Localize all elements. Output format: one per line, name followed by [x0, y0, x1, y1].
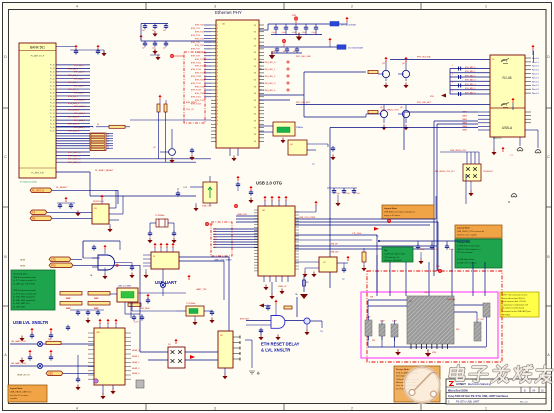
svg-text:P: P [217, 97, 218, 99]
svg-text:P: P [217, 80, 218, 82]
svg-text:RX: RX [32, 217, 36, 220]
svg-text:P: P [217, 49, 218, 51]
svg-text:Wire 2:2: Wire 2:2 [532, 66, 539, 68]
svg-text:3: 3 [214, 407, 216, 411]
svg-text:UB_UART_TX0: UB_UART_TX0 [11, 340, 26, 343]
svg-text:ETH_A8_P: ETH_A8_P [74, 91, 85, 94]
svg-text:P: P [217, 86, 218, 88]
svg-text:CTS: CTS [51, 258, 56, 261]
svg-text:HV-T device and the board: HV-T device and the board [502, 307, 524, 310]
svg-text:PL_52: PL_52 [50, 79, 55, 81]
svg-text:CTL_100k: CTL_100k [352, 233, 361, 235]
svg-text:ETH_A13_P: ETH_A13_P [68, 109, 80, 112]
svg-text:capable.: capable. [10, 398, 18, 400]
svg-text:ETH_LED_0: ETH_LED_0 [263, 62, 276, 64]
svg-text:device will not drive 30-D-Ts: device will not drive 30-D-Ts [502, 297, 526, 300]
svg-text:P: P [217, 73, 218, 75]
svg-text:USB_VBUS: USB_VBUS [140, 308, 150, 310]
svg-text:USB_VBUS_UART net: USB_VBUS_UART net [10, 390, 32, 393]
svg-text:Wire 0:0: Wire 0:0 [532, 58, 539, 60]
svg-text:HDMI_0: HDMI_0 [132, 350, 140, 352]
svg-text:1uF: 1uF [142, 30, 145, 32]
svg-text:SN74LVC1G: SN74LVC1G [93, 201, 104, 203]
svg-text:AVNET: AVNET [456, 382, 466, 386]
svg-text:ETH_MDI_0: ETH_MDI_0 [465, 67, 475, 69]
svg-text:P: P [217, 59, 218, 61]
svg-text:1uF: 1uF [293, 51, 296, 53]
svg-text:Wire 0:1: Wire 0:1 [532, 74, 539, 76]
svg-text:ETH_LED_2: ETH_LED_2 [263, 76, 276, 78]
svg-text:2m Ohm@100M: 2m Ohm@100M [341, 25, 356, 27]
svg-text:P: P [217, 25, 218, 27]
svg-text:PHY_LED_ACT: PHY_LED_ACT [296, 101, 311, 104]
svg-text:0.1uF: 0.1uF [312, 32, 316, 34]
svg-text:Default = Not Stuff.: Default = Not Stuff. [384, 259, 402, 262]
svg-text:P: P [217, 100, 218, 102]
svg-text:USB_DM: USB_DM [330, 251, 339, 253]
svg-text:VSS: VSS [432, 352, 437, 354]
svg-text:P: P [217, 90, 218, 92]
svg-text:ETH_A11_P: ETH_A11_P [68, 102, 80, 105]
svg-text:2= DAT, 0=1, RST, RdS: 2= DAT, 0=1, RST, RdS [13, 282, 35, 285]
svg-text:ETH_TX4: ETH_TX4 [195, 38, 205, 40]
svg-text:P: P [217, 45, 218, 47]
svg-text:Wire 2:0: Wire 2:0 [532, 81, 539, 83]
svg-text:ETH_A0_P: ETH_A0_P [74, 64, 85, 67]
svg-text:PL_56: PL_56 [50, 92, 55, 94]
svg-text:Design Note:: Design Note: [396, 368, 410, 371]
svg-text:P: P [217, 104, 218, 106]
svg-text:NOTE: The connections at this: NOTE: The connections at this [502, 294, 528, 297]
svg-text:3: 3 [214, 5, 216, 9]
svg-text:BANK 501: BANK 501 [30, 46, 45, 50]
svg-text:ETH_A16_P: ETH_A16_P [74, 119, 86, 122]
svg-text:4: 4 [76, 5, 78, 9]
svg-text:1uF: 1uF [152, 48, 155, 50]
svg-text:is operating in combination wi: is operating in combination with [502, 303, 528, 306]
svg-text:R81: R81 [372, 340, 375, 342]
svg-text:ETH_A12_P: ETH_A12_P [74, 105, 86, 108]
svg-text:ETH_TX11: ETH_TX11 [191, 62, 202, 64]
svg-text:OTG block to +5.: OTG block to +5. [384, 256, 400, 259]
svg-text:2: 2 [351, 5, 353, 9]
svg-text:P: P [217, 110, 218, 112]
svg-text:PL_54: PL_54 [50, 85, 55, 87]
svg-text:ETH_A5_P: ETH_A5_P [68, 81, 79, 84]
svg-text:3= DAT, RdS equalized: 3= DAT, RdS equalized [13, 296, 35, 299]
svg-text:Wire 1:2: Wire 1:2 [532, 77, 539, 79]
svg-text:USB0_ID: USB0_ID [278, 286, 287, 288]
svg-text:USB Self powered mode: USB Self powered mode [13, 289, 37, 292]
svg-text:MicroZed SOM: MicroZed SOM [448, 388, 468, 392]
svg-text:ETH_MDC_1: ETH_MDC_1 [68, 155, 81, 157]
svg-text:PHY_LED_ACT: PHY_LED_ACT [417, 101, 432, 104]
svg-text:D7: D7 [214, 247, 216, 249]
svg-text:Operating Note:: Operating Note: [13, 273, 28, 276]
svg-text:PL_57: PL_57 [50, 96, 55, 98]
svg-text:P: P [217, 114, 218, 116]
svg-text:Wire 3:1: Wire 3:1 [532, 85, 539, 87]
svg-text:P: P [217, 28, 218, 30]
svg-text:ETH_A4_P: ETH_A4_P [74, 78, 85, 81]
svg-text:in USB OTG mode all: in USB OTG mode all [457, 262, 477, 264]
svg-text:ETH_A9_P: ETH_A9_P [68, 95, 79, 98]
svg-text:ETH_MDC_2: ETH_MDC_2 [68, 159, 81, 161]
svg-text:RTS: RTS [51, 264, 56, 267]
svg-text:USB5: USB5 [462, 130, 467, 132]
svg-text:PTC one terminal: PTC one terminal [457, 251, 473, 254]
svg-text:ETH_A1_P: ETH_A1_P [68, 67, 79, 70]
svg-text:ETH_TX19: ETH_TX19 [191, 90, 202, 92]
svg-text:USB2: USB2 [462, 119, 467, 121]
svg-text:DNI: DNI [48, 339, 52, 341]
svg-text:1uF: 1uF [273, 51, 276, 53]
svg-text:USB LVL XNSLTR: USB LVL XNSLTR [13, 320, 48, 325]
svg-text:R68: R68 [456, 329, 459, 331]
svg-text:HDMI_3: HDMI_3 [132, 368, 140, 370]
svg-text:PL_53: PL_53 [50, 82, 55, 84]
svg-text:PHY_LED_LINK: PHY_LED_LINK [296, 56, 311, 58]
svg-text:USB UART: USB UART [155, 280, 177, 285]
svg-text:1.8V: 1.8V [183, 187, 188, 189]
svg-text:USB 2.0 OTG: USB 2.0 OTG [256, 181, 282, 186]
svg-text:P: P [217, 42, 218, 44]
svg-text:Y3 12MHz: Y3 12MHz [186, 303, 195, 305]
svg-text:5= RST, DAT, 0=1: 5= RST, DAT, 0=1 [13, 302, 30, 305]
svg-text:USB_VBUS_OTG: USB_VBUS_OTG [381, 110, 399, 112]
svg-text:P: P [217, 76, 218, 78]
svg-text:P: P [217, 52, 218, 54]
svg-text:Transport Note:: Transport Note: [457, 241, 471, 244]
svg-text:PL_55: PL_55 [50, 89, 55, 91]
svg-text:0.1uF: 0.1uF [292, 32, 296, 34]
svg-text:0.1uF: 0.1uF [302, 32, 306, 34]
svg-text:TPD4S012: TPD4S012 [483, 171, 494, 173]
svg-text:HDMI_4: HDMI_4 [132, 373, 140, 375]
svg-text:25MHz: 25MHz [296, 127, 303, 129]
svg-text:USB_VBUS_OTG net must be: USB_VBUS_OTG net must be [457, 230, 485, 233]
svg-text:PL_58: PL_58 [50, 99, 55, 101]
svg-text:ETH_TX1: ETH_TX1 [191, 28, 201, 30]
svg-text:ETH_TX5: ETH_TX5 [191, 42, 201, 44]
svg-text:ETH_A10_P: ETH_A10_P [74, 98, 86, 101]
svg-text:P: P [217, 66, 218, 68]
svg-text:PL_66: PL_66 [50, 127, 55, 129]
svg-text:1= PT 0 also on pads 1-4: 1= PT 0 also on pads 1-4 [13, 280, 37, 282]
svg-text:HDMI_2: HDMI_2 [132, 362, 140, 364]
svg-text:XC7Z010-CLG400: XC7Z010-CLG400 [20, 182, 37, 184]
svg-text:HDMI: HDMI [20, 260, 26, 262]
svg-text:ETH_TX15: ETH_TX15 [191, 76, 202, 78]
svg-text:ETH_LED_1: ETH_LED_1 [263, 69, 276, 71]
svg-text:ETH_MDI_5: ETH_MDI_5 [465, 88, 475, 90]
svg-text:Wire 1:0: Wire 1:0 [532, 93, 539, 95]
svg-text:ETH_MDI_6: ETH_MDI_6 [465, 92, 475, 94]
svg-text:ETH_TX2: ETH_TX2 [195, 32, 205, 34]
svg-text:LMK 1.12 MHz: LMK 1.12 MHz [118, 286, 131, 288]
svg-text:USB-A: USB-A [502, 126, 513, 130]
svg-text:P: P [217, 83, 218, 85]
svg-text:ETH_A17_P: ETH_A17_P [68, 122, 80, 125]
svg-text:P: P [217, 107, 218, 109]
svg-text:NL: NL [97, 124, 99, 126]
svg-text:XTAL 3.3V: XTAL 3.3V [202, 205, 212, 208]
svg-text:PL_50: PL_50 [50, 72, 55, 74]
svg-text:In USB Host mode switch: In USB Host mode switch [457, 244, 480, 247]
svg-text:ETH_MDIO: ETH_MDIO [186, 102, 197, 104]
svg-text:22: 22 [107, 148, 109, 150]
svg-text:PL_62: PL_62 [50, 113, 55, 115]
svg-text:target is 90 ohms.: target is 90 ohms. [384, 214, 401, 217]
svg-text:PL_64: PL_64 [50, 120, 55, 122]
svg-text:C_OUT: C_OUT [478, 319, 485, 321]
svg-text:ETH_A3_P: ETH_A3_P [68, 74, 79, 77]
svg-text:DNP: DNP [66, 298, 71, 300]
svg-text:1= PT 0 also on pads 3-5: 1= PT 0 also on pads 3-5 [13, 293, 37, 295]
svg-text:TX: TX [32, 211, 35, 214]
svg-text:ETH_TX13: ETH_TX13 [191, 69, 202, 71]
svg-text:USB_OTG_CPEN: USB_OTG_CPEN [299, 217, 316, 219]
svg-text:4.7uF: 4.7uF [134, 322, 138, 324]
svg-text:0.1uF: 0.1uF [346, 193, 350, 195]
svg-text:PL_ENT_S.M: PL_ENT_S.M [31, 173, 44, 175]
svg-text:ETH_RST: ETH_RST [240, 319, 250, 321]
svg-text:ETH_A14_P: ETH_A14_P [74, 112, 86, 115]
svg-text:6= DAT, RdS: 6= DAT, RdS [13, 306, 26, 309]
svg-text:PL_67: PL_67 [50, 130, 55, 132]
svg-text:ETH_LED_4: ETH_LED_4 [263, 90, 276, 92]
svg-text:PL_61: PL_61 [50, 110, 55, 112]
svg-text:PL_RESET: PL_RESET [56, 187, 68, 189]
svg-text:PS: ETH, USB, UART: PS: ETH, USB, UART [456, 400, 480, 403]
svg-text:ETH_A15_P: ETH_A15_P [68, 116, 80, 119]
svg-text:termination for the USB UART p: termination for the USB UART port [502, 310, 532, 313]
svg-text:Rev 1.0: Rev 1.0 [520, 401, 528, 403]
svg-text:USB1: USB1 [462, 115, 467, 117]
svg-text:HDMI_1: HDMI_1 [132, 356, 140, 358]
svg-text:Layout Note:: Layout Note: [457, 227, 471, 230]
svg-text:ETH_TX7: ETH_TX7 [191, 49, 201, 51]
svg-text:ETH_TX21: ETH_TX21 [191, 97, 202, 99]
svg-text:In USB Optns Note:: In USB Optns Note: [457, 258, 475, 261]
svg-text:PL_60: PL_60 [50, 106, 55, 108]
svg-text:ETH_MDI_3: ETH_MDI_3 [465, 80, 475, 82]
svg-text:Wire 0:2: Wire 0:2 [532, 89, 539, 91]
svg-text:1uF: 1uF [152, 30, 155, 32]
svg-text:CLK_25: CLK_25 [186, 109, 194, 111]
svg-text:ETH_TX17: ETH_TX17 [191, 83, 202, 85]
svg-text:USB_DP: USB_DP [330, 244, 339, 246]
svg-text:P: P [217, 121, 218, 123]
svg-text:ETH_A7_P: ETH_A7_P [68, 88, 79, 91]
svg-text:with HS-B.: with HS-B. [502, 313, 511, 316]
svg-text:Y2 33MHz: Y2 33MHz [155, 215, 164, 217]
svg-text:5V0_RAIL: 5V0_RAIL [447, 298, 456, 301]
svg-text:PL_63: PL_63 [50, 116, 55, 118]
svg-text:P: P [217, 32, 218, 34]
svg-text:0.1uF: 0.1uF [336, 193, 340, 195]
svg-text:0.1uF: 0.1uF [272, 32, 276, 34]
svg-text:2: 2 [351, 407, 353, 411]
svg-text:1uF: 1uF [163, 48, 166, 50]
svg-text:USB_VBUS_OTG_FLT: USB_VBUS_OTG_FLT [434, 171, 455, 173]
svg-text:ETH_MDI_1: ETH_MDI_1 [465, 71, 475, 73]
svg-text:1uF: 1uF [163, 30, 166, 32]
svg-text:4= DAT, GND equalized: 4= DAT, GND equalized [13, 299, 36, 302]
svg-text:P: P [217, 56, 218, 58]
svg-text:1: 1 [485, 407, 487, 411]
svg-text:PL_65: PL_65 [50, 123, 55, 125]
svg-text:must be 15 or more: must be 15 or more [10, 394, 29, 397]
svg-text:P: P [217, 35, 218, 37]
svg-text:PL_51: PL_51 [50, 75, 55, 77]
svg-text:ETH_MDC_0: ETH_MDC_0 [68, 152, 81, 154]
svg-text:ETH_A19_P: ETH_A19_P [68, 129, 80, 132]
svg-text:Zynq-7000 AP SoC PS: ETH, USB,: Zynq-7000 AP SoC PS: ETH, USB, UART Inte… [448, 395, 509, 398]
svg-text:Wire 3:0: Wire 3:0 [532, 70, 539, 72]
svg-text:Wire 1:1: Wire 1:1 [532, 62, 539, 64]
svg-text:ETH_TX0: ETH_TX0 [195, 25, 205, 27]
svg-text:Ethernet PHY: Ethernet PHY [215, 10, 242, 15]
svg-text:1uF: 1uF [142, 48, 145, 50]
svg-text:PL_49: PL_49 [50, 68, 55, 70]
svg-text:R21: R21 [409, 301, 412, 303]
svg-text:2m Ohm@100M: 2m Ohm@100M [348, 48, 363, 50]
svg-text:PL_59: PL_59 [50, 103, 55, 105]
svg-text:Layout Note:: Layout Note: [384, 207, 398, 210]
svg-text:PL_ENET_RESET: PL_ENET_RESET [95, 170, 114, 172]
svg-text:UART_TXD: UART_TXD [196, 288, 207, 291]
svg-text:Cap/Ferrite filters VDD: Cap/Ferrite filters VDD [384, 252, 405, 255]
svg-text:RJ-45: RJ-45 [502, 76, 511, 80]
svg-text:ETH_MDC_3: ETH_MDC_3 [68, 162, 81, 164]
svg-text:P: P [217, 62, 218, 64]
svg-text:50mil or more capable.: 50mil or more capable. [457, 235, 478, 237]
svg-text:UB_UART_RX0: UB_UART_RX0 [11, 362, 27, 365]
svg-text:ETH_MDI_4: ETH_MDI_4 [465, 84, 475, 86]
svg-text:ETH_A6_P: ETH_A6_P [74, 85, 85, 88]
svg-text:P: P [217, 93, 218, 95]
svg-text:0.1uF: 0.1uF [356, 193, 360, 195]
svg-text:ETH_TX3: ETH_TX3 [191, 35, 201, 37]
svg-text:ETH_MDI_2: ETH_MDI_2 [465, 75, 475, 77]
svg-text:T%: T% [320, 331, 323, 333]
svg-text:P: P [217, 69, 218, 71]
svg-text:PL_RST_N: PL_RST_N [32, 189, 44, 192]
svg-text:1: 1 [485, 5, 487, 9]
svg-text:doesn't prevent that. YS-2 lif: doesn't prevent that. YS-2 lift [502, 300, 527, 303]
svg-text:ETH_TX9: ETH_TX9 [191, 56, 201, 58]
svg-text:Tip:: Tip: [384, 250, 388, 252]
svg-text:PL_48: PL_48 [50, 65, 55, 67]
svg-text:HDMI: HDMI [20, 266, 26, 268]
svg-text:P: P [217, 117, 218, 119]
svg-text:P: P [217, 124, 218, 126]
svg-text:PL_ANT_E1_P: PL_ANT_E1_P [31, 55, 45, 58]
svg-text:ETH RESET DELAY: ETH RESET DELAY [261, 342, 300, 347]
svg-text:P: P [217, 39, 218, 41]
svg-text:USB0_DIR: USB0_DIR [237, 214, 247, 216]
svg-text:Electronics Marketing: Electronics Marketing [468, 383, 492, 386]
svg-text:1uF: 1uF [283, 51, 286, 53]
svg-text:4: 4 [76, 407, 78, 411]
svg-text:ETH_TX6: ETH_TX6 [195, 45, 205, 47]
svg-text:USB differential signal impeda: USB differential signal impedance [384, 211, 416, 214]
svg-text:ETH_A2_P: ETH_A2_P [74, 71, 85, 74]
svg-text:0.1uF: 0.1uF [282, 32, 286, 34]
svg-text:USB Bus powered mode: USB Bus powered mode [13, 276, 37, 279]
svg-text:(SW4) 1-OH of default is a: (SW4) 1-OH of default is a [457, 248, 481, 251]
svg-text:USBCON-1: USBCON-1 [493, 138, 502, 140]
svg-text:CEC: CEC [48, 372, 53, 375]
svg-text:Layout Note:: Layout Note: [10, 387, 23, 390]
svg-text:HDMI CEC IN: HDMI CEC IN [17, 375, 30, 377]
svg-text:& LVL XNSLTR: & LVL XNSLTR [261, 348, 290, 353]
svg-text:DNP: DNP [94, 298, 99, 300]
svg-text:PHY_VDD_RA: PHY_VDD_RA [417, 56, 431, 59]
svg-text:ETH_LED_3: ETH_LED_3 [263, 83, 276, 85]
